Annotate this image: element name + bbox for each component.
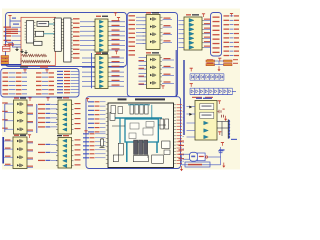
net label [164, 18, 171, 19]
wire [136, 20, 146, 22]
wire [110, 62, 124, 64]
label above U4 [96, 53, 101, 54]
pin [71, 28, 73, 30]
wire [204, 46, 211, 48]
pin [145, 60, 147, 62]
connector pin arc [228, 132, 229, 135]
wire [71, 80, 79, 82]
power ground arrow [222, 163, 225, 168]
pin [34, 27, 36, 29]
net label [88, 118, 94, 119]
net label [224, 55, 230, 56]
title DMP-CPU 46 DIP [135, 98, 165, 100]
component box [118, 107, 123, 114]
buffer gate U2a [99, 20, 103, 23]
net label [3, 77, 9, 78]
pin [25, 36, 27, 38]
wire [71, 77, 79, 79]
net label [46, 108, 51, 109]
pin [72, 140, 74, 142]
pin [56, 104, 58, 106]
pin [56, 145, 58, 147]
opto cell U12-1 [17, 139, 23, 142]
wire [51, 121, 57, 123]
pin [72, 145, 74, 147]
wire [51, 159, 57, 161]
wire [139, 57, 147, 59]
frame F4 (opto-isolator section border) [127, 13, 177, 97]
net label [139, 76, 145, 77]
wire [183, 154, 185, 156]
net label [95, 127, 100, 128]
pin net label [177, 103, 183, 106]
charge pump box [200, 104, 214, 110]
label above U3 [186, 14, 191, 15]
wire [80, 30, 95, 32]
wire [100, 127, 106, 129]
wire [82, 81, 95, 83]
wire [183, 129, 185, 131]
buffer gate U3c [189, 27, 194, 31]
title label [40, 66, 48, 67]
teal rail [128, 104, 150, 106]
capacitor C32 [218, 151, 223, 153]
pin [61, 42, 63, 44]
net label [5, 164, 11, 165]
pin [53, 30, 55, 32]
pin [61, 30, 63, 32]
pin [202, 33, 204, 35]
wire [51, 112, 57, 114]
wire [139, 84, 147, 86]
inner box [130, 123, 139, 129]
net label [75, 123, 81, 124]
connector J2 body [227, 120, 229, 139]
wire [12, 39, 22, 41]
net label [224, 15, 230, 16]
wire [183, 111, 185, 113]
teal wire [49, 23, 55, 25]
wire [215, 64, 224, 66]
wire [9, 93, 16, 95]
wire label row L4 [4, 44, 12, 45]
gate U13f [63, 164, 67, 167]
power VCC symbol [28, 135, 31, 138]
wire [179, 24, 185, 26]
pin [106, 121, 108, 123]
resistor R11 [28, 54, 35, 56]
net label [224, 51, 230, 52]
diode D15 [214, 74, 218, 80]
pin net label [177, 119, 183, 122]
pin [106, 158, 108, 160]
pin [72, 129, 74, 131]
diode D16 [219, 74, 223, 80]
pin [143, 31, 145, 33]
net label [95, 110, 100, 111]
resistor R22 [33, 60, 40, 62]
wire [27, 130, 33, 132]
wire [163, 41, 173, 43]
buffer IC U4 74LS07 [95, 55, 108, 89]
diode D23 [204, 88, 208, 94]
pin [106, 108, 108, 110]
net label [3, 81, 9, 82]
wire [71, 70, 79, 72]
wire [22, 76, 27, 78]
net label [64, 80, 70, 81]
title U22 [118, 98, 127, 100]
pin [174, 144, 177, 146]
pin [93, 81, 95, 83]
pin [71, 19, 73, 21]
resistor R10 [22, 54, 29, 56]
pin [143, 35, 145, 37]
pin [160, 60, 162, 62]
rail [190, 73, 224, 75]
pin net label [177, 150, 183, 153]
wire [136, 27, 146, 29]
net label [139, 60, 145, 61]
wire [10, 20, 21, 22]
pin net label [177, 116, 183, 119]
power VCC symbol [45, 70, 48, 73]
pin [106, 133, 108, 135]
diode D20 [190, 88, 194, 94]
wire [183, 160, 185, 162]
diode D28 [228, 88, 232, 94]
wire [4, 148, 13, 150]
wire [82, 57, 95, 59]
pin [174, 129, 177, 131]
buffer gate U2d [99, 34, 103, 37]
net label [112, 48, 120, 49]
schematic sheet background [2, 9, 240, 170]
connector pin label [213, 21, 220, 22]
diode D21 [195, 88, 199, 94]
wire [9, 19, 11, 27]
net label [88, 123, 94, 124]
frame F2 (middle-left connector section) [1, 69, 79, 98]
capacitor C31 [222, 115, 224, 118]
teal wire [44, 33, 55, 35]
net label [16, 85, 22, 86]
label +5V [219, 149, 225, 150]
wire [100, 131, 106, 133]
op-amp mark [191, 156, 195, 158]
orange resistor pack RN2 [1, 59, 9, 62]
net label [75, 154, 81, 155]
label above U2 [102, 16, 108, 17]
wire [136, 16, 146, 18]
diode D29 [231, 88, 233, 94]
label [199, 156, 204, 157]
label above U11 [146, 52, 151, 53]
buffer gate U4b [99, 61, 103, 64]
power ground arrow [180, 166, 183, 171]
connector pin arc [228, 129, 229, 132]
wire [179, 42, 185, 44]
pin net label [177, 122, 183, 125]
power VCC symbol [221, 143, 224, 146]
net label [2, 128, 8, 129]
wire [110, 26, 125, 28]
pin [202, 24, 204, 26]
pin [174, 163, 177, 165]
label above U13 [57, 135, 62, 136]
net label [28, 104, 34, 105]
pin [161, 43, 163, 45]
power VCC symbol [114, 13, 117, 16]
pin [174, 119, 177, 121]
buffer gate U4c [99, 66, 103, 69]
buffer gate U4d [99, 70, 103, 73]
wire [51, 103, 57, 105]
power VCC symbol [117, 18, 120, 21]
component box [162, 141, 170, 148]
pin [106, 116, 108, 118]
label above U10 [146, 12, 151, 13]
pin [71, 30, 73, 32]
diode D22 [199, 88, 203, 94]
pin [72, 109, 74, 111]
wire [217, 121, 228, 123]
gate U7e [63, 123, 67, 126]
net label [234, 42, 239, 43]
wire [9, 85, 16, 87]
net label [112, 56, 120, 57]
opto-isolator IC U10 TLP521-4 [146, 15, 160, 50]
pin [56, 140, 58, 142]
node marks [12, 18, 16, 19]
pin [93, 85, 95, 87]
pin [182, 33, 184, 35]
net label [129, 33, 136, 34]
component box [35, 31, 43, 36]
net label [16, 89, 22, 90]
net label [73, 53, 80, 54]
net label [88, 101, 94, 102]
ground [20, 49, 23, 53]
opto cell U11-3 [150, 73, 156, 76]
buffer gate U3a [189, 18, 194, 22]
label above U8 [196, 98, 202, 99]
net label [204, 46, 210, 47]
wire [82, 66, 95, 68]
net label [2, 119, 8, 120]
wire [139, 80, 147, 82]
label above U3 [192, 14, 199, 15]
wire [136, 31, 146, 33]
wire [204, 19, 211, 21]
wire [5, 111, 14, 113]
pin [108, 49, 110, 51]
buffer gate U4a [99, 56, 103, 59]
pin [143, 43, 145, 45]
charge pump box [200, 112, 214, 118]
opto cell U9-2 [17, 111, 23, 114]
pin [182, 42, 184, 44]
wire [187, 130, 196, 132]
wire [27, 166, 33, 168]
wire [9, 89, 16, 91]
pin [61, 39, 63, 41]
wire [220, 147, 222, 165]
pin [108, 66, 110, 68]
net label [83, 141, 89, 142]
net label [49, 93, 55, 94]
pin [108, 71, 110, 73]
power VCC symbol [28, 98, 31, 101]
pin [93, 76, 95, 78]
net label [224, 33, 230, 34]
pin [202, 42, 204, 44]
pin [56, 160, 58, 162]
pin net label [177, 131, 183, 134]
net label [36, 85, 42, 86]
pin [106, 112, 108, 114]
net label [234, 55, 239, 56]
pin [34, 24, 36, 26]
label above U11 [152, 52, 159, 53]
wire [5, 128, 14, 130]
diode D11 [195, 74, 199, 80]
net label [75, 128, 81, 129]
wire [22, 85, 27, 87]
pin [72, 160, 74, 162]
net label [46, 113, 51, 114]
wire [82, 76, 95, 78]
driver array [134, 140, 138, 155]
opto cell U11-2 [150, 66, 156, 69]
wire [42, 76, 48, 78]
pin [61, 25, 63, 27]
rail [190, 94, 233, 96]
net label [234, 20, 239, 21]
pin [161, 35, 163, 37]
pin [56, 129, 58, 131]
wire [80, 35, 95, 37]
orange resistor pack RN1 [1, 56, 9, 59]
wire [100, 118, 106, 120]
wire [12, 31, 22, 33]
net label [46, 152, 51, 153]
resistor R30 [206, 60, 215, 62]
power VCC symbol [190, 68, 193, 71]
diode D17 [223, 74, 225, 80]
connector pin label [213, 34, 220, 35]
gate U7f [63, 128, 67, 131]
connector pin label [213, 43, 220, 44]
power VCC symbol [86, 99, 89, 102]
power VCC symbol [46, 98, 49, 101]
pin net label [177, 140, 183, 143]
pin [174, 135, 177, 137]
pin [93, 49, 95, 51]
net label [234, 51, 239, 52]
wire [218, 61, 220, 65]
wire [204, 37, 211, 39]
pin [161, 27, 163, 29]
pin [174, 122, 177, 124]
opto cell U10-1 [150, 17, 156, 20]
wire [179, 37, 185, 39]
diode D27 [223, 88, 227, 94]
wire [204, 24, 211, 26]
pin [93, 57, 95, 59]
wire [230, 37, 234, 39]
pin [53, 48, 55, 50]
net label [28, 166, 34, 167]
wire [4, 140, 13, 142]
wire [42, 89, 48, 91]
label [202, 106, 212, 107]
wire [187, 136, 196, 138]
net label [204, 23, 210, 24]
net label [164, 74, 171, 75]
pin [202, 28, 204, 30]
resistor R20 [22, 60, 29, 62]
net label [90, 149, 95, 150]
wire [80, 49, 95, 51]
opto cell U11-1 [150, 58, 156, 61]
pin [72, 119, 74, 121]
net label [46, 160, 51, 161]
wire [187, 106, 196, 108]
wire [163, 34, 173, 36]
gate U13b [63, 144, 67, 147]
bus wire [91, 53, 93, 88]
red node [206, 156, 208, 158]
op-amp U14 [190, 152, 198, 161]
buffer gate U2b [99, 25, 103, 28]
ground [15, 47, 18, 51]
connector pin label [213, 30, 220, 31]
pin [174, 147, 177, 149]
net label [90, 137, 95, 138]
capacitor C22 [140, 105, 143, 115]
label above U4 [102, 53, 108, 54]
net label [204, 37, 210, 38]
net label [36, 77, 42, 78]
wire [230, 55, 234, 57]
wire [139, 76, 147, 78]
wire [182, 164, 221, 166]
wire [71, 86, 79, 88]
net label [28, 113, 34, 114]
pin [143, 16, 145, 18]
component box [110, 112, 115, 120]
net label [28, 121, 34, 122]
label text [188, 164, 202, 166]
net label [224, 37, 230, 38]
pin [56, 119, 58, 121]
wire [139, 72, 147, 74]
wire [215, 60, 224, 62]
wire rows into module [6, 31, 18, 32]
net label [73, 36, 80, 37]
pin [182, 24, 184, 26]
pin [145, 76, 147, 78]
wire [42, 72, 48, 74]
wire [136, 35, 146, 37]
wire labels [13, 24, 19, 25]
wire [183, 148, 185, 150]
net label [38, 117, 45, 118]
gate U7c [63, 113, 67, 116]
resistor R12 [34, 54, 41, 56]
pin [108, 35, 110, 37]
